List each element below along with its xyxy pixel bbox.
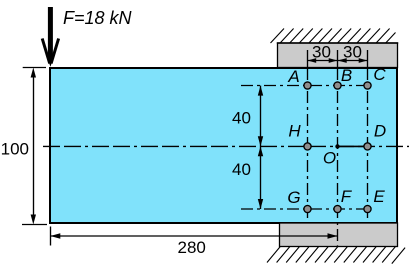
node D [364, 143, 371, 150]
node O (centroid dot) [335, 144, 339, 148]
top support hatching [271, 29, 396, 44]
bottom support hatching [267, 247, 405, 264]
dim 100: top tick [23, 67, 46, 69]
svg-text:G: G [287, 188, 300, 207]
svg-text:A: A [287, 67, 299, 86]
bottom support block [280, 223, 398, 247]
svg-text:D: D [374, 122, 386, 141]
top support ground line [277, 42, 398, 44]
force arrow F [42, 7, 58, 67]
dim 30-30: dimension line [308, 60, 368, 62]
dim 30-30: tick at C column [367, 50, 369, 68]
svg-text:40: 40 [232, 160, 251, 179]
dim 40-40: arrowheads [258, 86, 263, 96]
node A [304, 82, 311, 89]
beam centre line (dash-dot) [43, 145, 409, 147]
dim 30-30: tick at B column [337, 50, 339, 68]
column line through C-D-E [367, 68, 369, 222]
svg-text:F=18 kN: F=18 kN [63, 8, 133, 28]
node E [364, 205, 371, 212]
svg-text:40: 40 [232, 109, 251, 128]
svg-text:E: E [373, 187, 385, 206]
node F [334, 205, 341, 212]
node C [364, 82, 371, 89]
column line through B-O-F (centre) [337, 68, 339, 246]
svg-text:H: H [288, 122, 301, 141]
dim 100: bottom arrowhead [31, 215, 36, 225]
dim 100: top arrowhead [31, 68, 36, 78]
node G [304, 205, 311, 212]
row line G-F-E (dashed) [241, 208, 372, 210]
node H [304, 143, 311, 150]
top support block [278, 43, 398, 68]
svg-text:O: O [323, 149, 336, 168]
svg-text:30: 30 [312, 42, 331, 61]
node B [334, 82, 341, 89]
svg-text:280: 280 [178, 238, 206, 257]
dim 280: right arrowhead [328, 233, 338, 238]
dim 280: left extension line [50, 227, 52, 246]
beam (cross-section body) [50, 68, 397, 223]
dim 30-30: tick at A column [307, 50, 309, 68]
svg-text:100: 100 [1, 139, 29, 158]
dim 40-40: dimension line [260, 86, 262, 209]
dim 100: dimension line [33, 72, 35, 220]
solid segment O-D [338, 145, 368, 147]
svg-text:B: B [341, 66, 352, 85]
dim 280: dimension line [50, 235, 337, 237]
column line through A-H-G [307, 68, 309, 222]
svg-text:C: C [373, 65, 386, 84]
svg-text:30: 30 [343, 42, 362, 61]
dim 30-30: arrowheads [308, 58, 317, 63]
row line A-B-C (dashed) [241, 85, 372, 87]
dim 100: bottom tick [22, 224, 47, 226]
svg-text:F: F [341, 187, 353, 206]
dim 280: left arrowhead [50, 233, 60, 238]
